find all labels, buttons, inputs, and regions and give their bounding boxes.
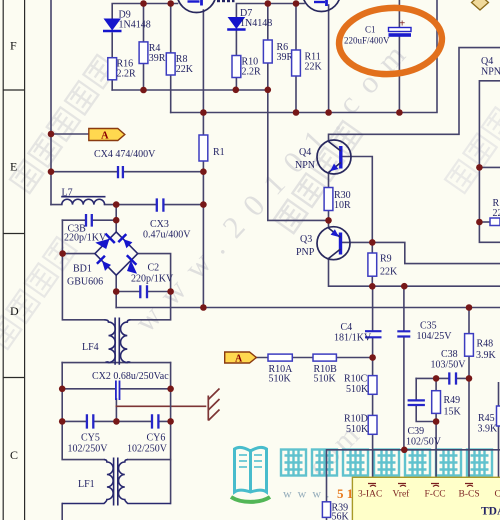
resistor R11 bbox=[292, 50, 301, 76]
svg-text:NPN: NPN bbox=[295, 160, 315, 171]
bridge diode bottom-left bbox=[97, 256, 111, 271]
capacitor C4 bbox=[365, 331, 382, 337]
resistor R30 bbox=[324, 188, 333, 211]
wire: top-right box y=47.6 bbox=[329, 48, 500, 141]
svg-text:220p/1KV: 220p/1KV bbox=[131, 274, 174, 285]
inductor L7 bbox=[61, 197, 105, 205]
svg-text:R49: R49 bbox=[444, 395, 461, 406]
svg-text:Q4: Q4 bbox=[481, 56, 493, 67]
wire: top rail left segment (D9 box top) bbox=[112, 4, 177, 19]
svg-text:LF4: LF4 bbox=[82, 342, 99, 353]
wire: C39 branch bbox=[416, 378, 436, 421]
svg-text:B-CS: B-CS bbox=[459, 490, 480, 500]
svg-text:PNP: PNP bbox=[296, 247, 315, 258]
resistor R10 bbox=[232, 56, 241, 78]
svg-text:C: C bbox=[495, 490, 500, 500]
transistor Q3 bbox=[317, 227, 350, 260]
svg-text:510K: 510K bbox=[346, 384, 369, 395]
svg-text:A: A bbox=[101, 131, 109, 142]
svg-text:3.9K: 3.9K bbox=[478, 424, 499, 435]
capacitor CY5 bbox=[87, 414, 93, 428]
pin mark 3-IAC bbox=[368, 484, 376, 487]
highlight ellipse around C1 bbox=[337, 4, 444, 77]
bridge diode bottom-right bbox=[127, 255, 137, 274]
wire: Q3 base jog to right edge bbox=[341, 242, 500, 263]
svg-text:A: A bbox=[235, 353, 243, 364]
svg-text:10R: 10R bbox=[334, 200, 351, 211]
svg-text:R9: R9 bbox=[380, 254, 392, 265]
svg-text:102/250V: 102/250V bbox=[127, 444, 168, 455]
resistor R9 bbox=[368, 253, 377, 276]
wire: R49 branch bbox=[435, 378, 437, 477]
wire: CX4 row y=171.7 bbox=[51, 171, 203, 173]
svg-text:CX3: CX3 bbox=[150, 219, 169, 230]
wire: C38 row y=378.4 bbox=[416, 377, 469, 379]
svg-text:F-CC: F-CC bbox=[425, 490, 446, 500]
svg-text:5 1: 5 1 bbox=[337, 486, 353, 501]
IC box (TDA controller, cut at corner) bbox=[352, 477, 500, 520]
resistor R8 bbox=[166, 53, 175, 75]
resistor R45 (cut at right edge) bbox=[497, 406, 500, 426]
svg-text:Vref: Vref bbox=[393, 489, 411, 500]
svg-text:220uF/400V: 220uF/400V bbox=[344, 36, 390, 46]
svg-text:104/25V: 104/25V bbox=[417, 331, 453, 342]
transformer LF4 bbox=[105, 318, 131, 365]
svg-text:C2: C2 bbox=[148, 263, 160, 274]
wire: bridge right arm to right rail bbox=[130, 254, 170, 320]
svg-text:E: E bbox=[10, 160, 17, 174]
capacitor CX3 bbox=[157, 198, 164, 211]
net pointer A (lower) bbox=[225, 352, 257, 364]
resistor R10C bbox=[368, 376, 377, 395]
teal watermark: book logo bbox=[235, 447, 267, 492]
capacitor C38 bbox=[449, 372, 456, 384]
wire: R6 branch bbox=[267, 4, 269, 90]
wire: R11 branch bbox=[295, 4, 297, 113]
wire: D9 box bottom rail y=90 bbox=[112, 89, 268, 91]
svg-text:510K: 510K bbox=[269, 374, 292, 385]
wire: left rail x=51 bbox=[50, 0, 52, 205]
wire: CX2 row y=388.8 bbox=[62, 388, 170, 390]
pin mark Vref bbox=[398, 484, 406, 487]
resistor R1 bbox=[199, 135, 208, 161]
wire: bottom bus y=449.8 and R39 drop bbox=[327, 450, 500, 520]
resistor R10D bbox=[368, 415, 377, 434]
svg-text:3-IAC: 3-IAC bbox=[358, 490, 382, 500]
bridge diode top-right bbox=[118, 234, 132, 248]
wire: CY row y=421.4 bbox=[62, 420, 170, 422]
watermark gray band top-right corner bbox=[445, 107, 500, 193]
watermark gray band mid-right bbox=[274, 121, 362, 233]
svg-text:22K: 22K bbox=[176, 64, 194, 75]
pin mark F-CC bbox=[431, 484, 439, 487]
svg-text:510K: 510K bbox=[314, 374, 337, 385]
wire: chassis branch y=406.3 bbox=[116, 405, 205, 407]
svg-text:2.2R: 2.2R bbox=[242, 67, 262, 78]
svg-text:D: D bbox=[10, 304, 19, 318]
svg-text:C39: C39 bbox=[408, 426, 425, 437]
wire: right rail to LF1 bottom bbox=[170, 460, 172, 504]
svg-text:R1: R1 bbox=[213, 147, 225, 158]
capacitor CX2 bbox=[116, 381, 120, 401]
svg-text:1N4148: 1N4148 bbox=[119, 20, 151, 31]
frame: margin column lines bbox=[3, 0, 24, 520]
transformer LF1 bbox=[62, 458, 170, 506]
svg-text:C4: C4 bbox=[341, 322, 353, 333]
svg-text:NPN: NPN bbox=[481, 67, 500, 78]
wire: C35 chain bbox=[403, 286, 405, 450]
svg-text:CY5: CY5 bbox=[81, 433, 100, 444]
svg-text:BD1: BD1 bbox=[73, 264, 92, 275]
wire: top rail right segment (D7 box top) bbox=[236, 4, 304, 17]
wire: Q4 base link to Q3 base, R9 chain bbox=[341, 157, 373, 287]
capacitor CX4 bbox=[118, 166, 123, 178]
capacitor C3B bbox=[86, 214, 92, 227]
diode D7 bbox=[227, 17, 245, 30]
svg-text:102/250V: 102/250V bbox=[68, 444, 109, 455]
svg-text:2.2R: 2.2R bbox=[117, 69, 137, 80]
wire: R10A R10B row y=357.5 bbox=[256, 357, 372, 359]
resistor R16 bbox=[108, 58, 117, 80]
svg-text:L7: L7 bbox=[62, 187, 73, 198]
wire: y=112.5 bus bbox=[171, 0, 437, 113]
svg-text:Q4: Q4 bbox=[299, 147, 311, 158]
chassis ground symbol bbox=[208, 389, 219, 421]
wire: LF4 bottom row y=362.6 bbox=[62, 362, 170, 364]
svg-text:R48: R48 bbox=[477, 339, 494, 350]
cut text fragment above D7 bbox=[217, 0, 235, 2]
capacitor CY6 bbox=[152, 414, 158, 428]
capacitor C35 bbox=[397, 331, 410, 336]
resistor R49 bbox=[432, 391, 441, 414]
svg-text:22: 22 bbox=[493, 208, 500, 219]
svg-text:R10C: R10C bbox=[344, 374, 368, 385]
svg-text:R10D: R10D bbox=[344, 414, 368, 425]
svg-text:103/50V: 103/50V bbox=[431, 360, 467, 371]
svg-text:TDA: TDA bbox=[481, 506, 500, 518]
bridge diode top-left bbox=[95, 234, 115, 249]
svg-text:+: + bbox=[399, 18, 405, 30]
resistor R4 bbox=[139, 42, 148, 64]
wire: right rail x=170.6 CX2 box bbox=[128, 363, 171, 460]
svg-text:GBU606: GBU606 bbox=[67, 277, 103, 288]
wire: MOSFET Q2 source down bbox=[328, 5, 330, 113]
wire: R6/R10 node down to Q3 emitter row bbox=[268, 90, 329, 221]
wire: Q3 collector to y=286.2 bus bbox=[329, 259, 500, 286]
wire: right stub y=167.4 bbox=[479, 166, 500, 168]
capacitor C2 bbox=[140, 285, 147, 298]
svg-text:3.9K: 3.9K bbox=[476, 350, 497, 361]
svg-text:F: F bbox=[10, 39, 17, 53]
wire: bridge bottom to C2 row bbox=[115, 275, 117, 307]
capacitor C39 bbox=[408, 400, 425, 405]
svg-text:LF1: LF1 bbox=[78, 479, 95, 490]
net pointer A (upper) bbox=[89, 129, 125, 142]
svg-text:CX4 474/400V: CX4 474/400V bbox=[94, 149, 156, 160]
wire: LF1 left bottom out bbox=[61, 504, 63, 520]
resistor R48 bbox=[465, 334, 474, 357]
wire: C3B row y=220.2 bbox=[62, 219, 116, 221]
wire: R45 stubs (cut at right edge) bbox=[498, 382, 500, 478]
wire: A net to pointer bbox=[51, 133, 89, 135]
svg-text:15K: 15K bbox=[444, 407, 462, 418]
resistor R (right edge, cut) bbox=[490, 218, 500, 226]
svg-text:102/50V: 102/50V bbox=[406, 437, 442, 448]
resistor R10A bbox=[268, 354, 292, 361]
svg-text:C: C bbox=[10, 448, 18, 462]
svg-text:22K: 22K bbox=[305, 62, 323, 73]
wire: D7-R10 chain vertical bbox=[235, 31, 237, 90]
MOSFET Q1 (top, cut) bbox=[177, 0, 216, 13]
svg-text:510K: 510K bbox=[346, 424, 369, 435]
svg-text:39R: 39R bbox=[149, 53, 166, 64]
resistor R6 bbox=[263, 40, 272, 63]
watermark gray band top-left bbox=[10, 55, 117, 193]
wire: C2 row y=291.5 bbox=[116, 291, 170, 293]
wire: long bus y=307.5 bbox=[116, 307, 500, 309]
svg-text:R45: R45 bbox=[478, 413, 495, 424]
teal watermark: characters 家电维修资料网 bbox=[281, 450, 492, 476]
svg-text:22K: 22K bbox=[380, 267, 398, 278]
wire: L7 node down to bridge top bbox=[115, 205, 117, 232]
svg-text:C1: C1 bbox=[365, 25, 376, 35]
svg-text:1N4148: 1N4148 bbox=[240, 18, 272, 29]
wire: C4/R10C/R10D chain bbox=[372, 286, 374, 477]
wire: R4 branch bbox=[143, 4, 145, 91]
wire: CX2 node down to CY row bbox=[115, 399, 117, 421]
capacitor C1 (electrolytic) bbox=[389, 18, 412, 37]
MOSFET Q2 (top, cut) bbox=[303, 0, 341, 12]
svg-text:0.47u/400V: 0.47u/400V bbox=[143, 230, 191, 241]
svg-text:CX2 0.68u/250Vac: CX2 0.68u/250Vac bbox=[92, 371, 169, 382]
svg-text:Q3: Q3 bbox=[300, 234, 312, 245]
svg-text:56K: 56K bbox=[332, 512, 350, 520]
transistor Q4 bbox=[317, 140, 351, 174]
bridge rectifier BD1 bbox=[95, 232, 138, 275]
diode D9 bbox=[103, 19, 122, 32]
svg-text:C35: C35 bbox=[420, 321, 437, 332]
resistor R10B bbox=[313, 354, 336, 361]
wire: right resistor row y=222 bbox=[479, 221, 490, 223]
wire: bridge left arm bbox=[63, 253, 95, 255]
wire: R30 link Q4 emitter to Q3 bbox=[328, 174, 330, 227]
wire: MOSFET Q1 source down through R1 bbox=[202, 10, 204, 308]
wire: R48 chain bbox=[468, 308, 470, 478]
svg-text:www.: www. bbox=[283, 487, 335, 501]
wire: L7 row y=204.6 bbox=[51, 204, 203, 206]
wire: inner-left rail x=62.3 bbox=[62, 220, 104, 459]
svg-text:C38: C38 bbox=[441, 349, 458, 360]
svg-text:181/1KV: 181/1KV bbox=[334, 333, 372, 344]
svg-text:CY6: CY6 bbox=[147, 433, 166, 444]
wire: C1 vertical bbox=[398, 0, 400, 113]
watermark gray band left-margin lower bbox=[0, 237, 76, 349]
resistor R39 bbox=[322, 502, 330, 518]
wire: D9-R16 chain vertical bbox=[111, 33, 113, 90]
pin mark B-CS bbox=[465, 484, 473, 487]
wire: R8 branch down to y=112.5 bus bbox=[170, 4, 172, 113]
wire: right box x=479.4 bbox=[479, 81, 500, 243]
net pointer diamond (top right, cut) bbox=[472, 0, 489, 10]
